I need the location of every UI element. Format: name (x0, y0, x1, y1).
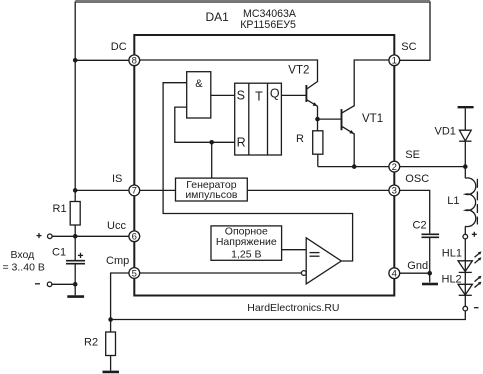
comparator inverting bubble (301, 271, 306, 276)
node Vin-minus (73, 282, 78, 287)
pin 4 (389, 268, 400, 279)
svg-text:T: T (255, 90, 263, 104)
wire pin7 to left rail (75, 189, 134, 191)
wire oscillator to AND input and latch R (175, 107, 235, 142)
svg-text:1: 1 (392, 56, 397, 67)
wire reference to comparator input (282, 249, 307, 251)
pin 8 (129, 55, 140, 66)
svg-text:Ucc: Ucc (107, 220, 126, 232)
wire R bottom to SE rail (317, 154, 319, 166)
pin 3 (389, 185, 400, 196)
input plus terminal (48, 234, 53, 239)
wire C2 to pin4 rail (429, 238, 431, 273)
svg-text:HL1: HL1 (442, 248, 462, 260)
node oscillator tap (209, 140, 214, 145)
pin 5 (129, 268, 140, 279)
latch S-T-Q box (235, 83, 282, 155)
wire pin7 to generator (134, 189, 175, 191)
LED HL1 (458, 261, 472, 272)
wire comparator output to AND input (163, 83, 353, 261)
capacitor C2 (422, 233, 440, 235)
wire pin8 to VT2 collector (134, 60, 317, 89)
svg-text:C1: C1 (52, 247, 66, 259)
LED HL2 (458, 284, 472, 295)
svg-text:S: S (237, 89, 245, 103)
svg-text:R1: R1 (53, 203, 67, 215)
pulse generator box (176, 178, 248, 201)
svg-text:VT2: VT2 (288, 65, 309, 77)
reference voltage box (211, 226, 282, 260)
wire R1 bottom to C1 (74, 225, 76, 260)
svg-text:L1: L1 (447, 195, 459, 207)
svg-text:Cmp: Cmp (106, 255, 129, 267)
transistor VT1 (341, 109, 343, 130)
wire oscillator tap down to generator box (211, 142, 213, 178)
node Vin-pin8 (73, 58, 78, 63)
resistor R (313, 131, 323, 154)
svg-text:VD1: VD1 (435, 126, 456, 138)
wire latch Q to VT2 base (281, 94, 306, 96)
ground under C1 (67, 295, 84, 298)
node SE-VD1-L1 (463, 164, 468, 169)
wire LED string (464, 239, 466, 307)
svg-text:1,25 В: 1,25 В (231, 248, 261, 260)
wire AND output to latch S (211, 94, 235, 96)
ground at pin4 (422, 283, 438, 286)
IC DA1 box (134, 35, 394, 296)
svg-text:&: & (195, 78, 203, 90)
resistor R2 (110, 320, 112, 333)
wire pin1 to VT1 collector (342, 60, 395, 113)
svg-text:HL2: HL2 (442, 274, 462, 286)
input minus terminal (47, 282, 52, 287)
transistor VT2 (305, 85, 307, 102)
svg-text:DA1: DA1 (206, 10, 230, 24)
node Vin-pin6 (73, 234, 78, 239)
wire bottom feedback rail (111, 311, 466, 320)
wire plus input terminal to pin 6 (52, 235, 134, 237)
wire junction to resistor R (317, 119, 319, 131)
wire C1 bottom to ground (74, 264, 76, 295)
plus output terminal (463, 234, 468, 239)
node feedback (108, 317, 113, 322)
svg-text:IS: IS (112, 173, 122, 185)
svg-text:VT1: VT1 (362, 113, 383, 125)
ground under R2 (103, 371, 120, 374)
wire VT2 emitter to VT1 base (318, 118, 342, 120)
svg-text:R2: R2 (84, 336, 98, 348)
wire top supply loop (Vin rail to pins 8 and 1) (75, 2, 430, 202)
svg-text:OSC: OSC (405, 173, 429, 185)
diode VD1 (464, 108, 466, 130)
svg-text:3: 3 (392, 186, 397, 197)
svg-text:Q: Q (270, 87, 280, 101)
wire minus input terminal (52, 283, 75, 285)
AND gate U-and (187, 72, 211, 118)
wire pin3 to C2 (394, 190, 429, 233)
svg-text:R: R (237, 135, 246, 149)
svg-text:КР1156ЕУ5: КР1156ЕУ5 (240, 19, 296, 31)
minus output terminal (463, 306, 468, 311)
svg-text:C2: C2 (413, 220, 427, 232)
diode VD1 top bar (458, 106, 474, 108)
op-amp comparator (306, 238, 341, 284)
wire pin4 to ground branch (394, 272, 429, 274)
wire pin8 to left rail (75, 59, 134, 61)
svg-text:Вход: Вход (11, 249, 35, 261)
pin 2 (389, 161, 400, 172)
C1 polarity plus sign (78, 254, 83, 256)
node VT1 emitter (352, 164, 357, 169)
svg-text:4: 4 (392, 269, 397, 280)
svg-text:6: 6 (132, 232, 137, 243)
svg-text:8: 8 (132, 56, 137, 67)
node C2-ground (427, 271, 432, 276)
svg-text:= 3..40 В: = 3..40 В (3, 261, 45, 273)
pin 7 (129, 185, 140, 196)
svg-text:SC: SC (401, 41, 416, 53)
svg-text:DC: DC (111, 41, 127, 53)
pin 1 (389, 55, 400, 66)
node Vin-pin7 (73, 188, 78, 193)
resistor R1 (70, 202, 80, 226)
svg-text:R: R (296, 133, 304, 145)
wire pin5 to feedback divider (111, 273, 135, 320)
node VT2 emitter (315, 117, 320, 122)
wire pin5 to comparator inverting input (134, 272, 301, 274)
capacitor C1 (66, 260, 85, 262)
inductor L1 (464, 167, 466, 179)
pin 6 (129, 231, 140, 242)
wire generator to pin 3 (247, 189, 394, 191)
wire pin2 to VD1-L1 junction (394, 166, 465, 168)
svg-text:Напряжение: Напряжение (216, 236, 277, 248)
svg-text:Gnd: Gnd (407, 260, 428, 272)
svg-text:импульсов: импульсов (185, 189, 238, 201)
svg-text:SE: SE (405, 149, 420, 161)
wire SE internal rail to pin 2 (318, 166, 395, 168)
svg-text:2: 2 (392, 162, 397, 173)
svg-text:HardElectronics.RU: HardElectronics.RU (247, 302, 339, 314)
svg-text:7: 7 (132, 186, 137, 197)
svg-text:5: 5 (132, 268, 137, 279)
